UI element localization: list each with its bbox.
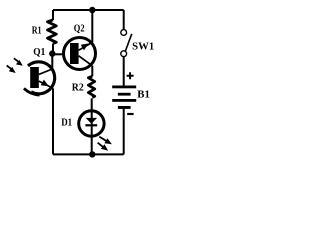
wire battery minus to bottom rail — [123, 109, 125, 155]
wire D1 through to bottom rail — [91, 112, 93, 154]
svg-text:SW1: SW1 — [132, 41, 154, 52]
light arrow 1 into Q1 — [14, 58, 23, 66]
wire R1 bottom to node — [52, 44, 54, 52]
wire Q2 emitter to top rail — [91, 10, 93, 43]
wire node to Q2 base — [52, 53, 65, 55]
node junction dot bottom rail — [89, 151, 95, 157]
wire bottom rail — [53, 153, 124, 155]
battery plus sign — [127, 72, 134, 79]
svg-text:R1: R1 — [32, 26, 42, 37]
LED light arrow 1 out — [99, 137, 112, 145]
wire node down to Q1 collector — [51, 54, 53, 70]
wire switch to battery plus — [123, 57, 125, 86]
wire R1 feed from top rail — [52, 10, 54, 20]
svg-text:B1: B1 — [137, 90, 150, 101]
LED D1 — [79, 111, 104, 136]
transistor Q2 — [64, 38, 96, 70]
switch SW1 — [121, 30, 132, 57]
resistor R1 — [48, 20, 57, 44]
svg-text:D1: D1 — [61, 118, 72, 129]
svg-text:Q1: Q1 — [33, 47, 45, 58]
resistor R2 — [88, 76, 94, 97]
svg-text:R2: R2 — [72, 83, 84, 94]
light arrow 2 into Q1 — [7, 66, 16, 74]
node A junction dot (R1/Q1/Q2) — [49, 50, 55, 56]
node junction dot top rail — [89, 7, 95, 13]
battery minus sign — [127, 113, 133, 115]
wire left rail Q1 emitter to bottom — [52, 88, 54, 154]
LED light arrow 2 out — [98, 143, 109, 151]
wire Q2 collector to R2 — [91, 66, 93, 76]
svg-text:Q2: Q2 — [74, 24, 85, 35]
transistor Q1 (phototransistor, circle open at left) — [24, 62, 55, 95]
wire top rail — [53, 9, 124, 11]
wire R2 to D1 — [91, 98, 93, 112]
battery B1 — [112, 86, 136, 109]
wire switch top feed — [123, 10, 125, 30]
